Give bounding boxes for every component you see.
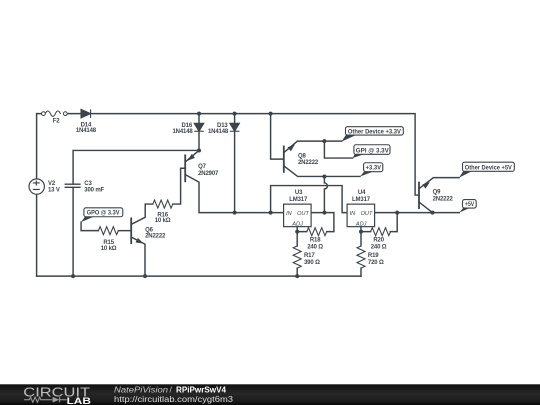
svg-text:U3: U3 xyxy=(295,190,303,196)
svg-text:R17: R17 xyxy=(304,253,315,259)
svg-text:ADJ: ADJ xyxy=(291,222,303,228)
svg-text:390 Ω: 390 Ω xyxy=(304,260,320,266)
svg-text:2N2907: 2N2907 xyxy=(198,171,219,177)
svg-text:GPI @ 3.3V: GPI @ 3.3V xyxy=(356,149,389,155)
svg-text:LM317: LM317 xyxy=(289,197,308,203)
svg-text:240 Ω: 240 Ω xyxy=(307,244,323,250)
svg-text:LAB: LAB xyxy=(67,395,92,405)
svg-text:Q9: Q9 xyxy=(433,189,442,195)
svg-text:10 kΩ: 10 kΩ xyxy=(101,246,117,252)
svg-text:GPO @ 3.3V: GPO @ 3.3V xyxy=(87,211,120,217)
svg-text:1N4148: 1N4148 xyxy=(172,129,193,135)
svg-text:Other Device +3.3V: Other Device +3.3V xyxy=(348,130,401,136)
svg-text:1N4148: 1N4148 xyxy=(76,128,97,134)
svg-text:RPiPwrSwV4: RPiPwrSwV4 xyxy=(176,384,226,394)
svg-text:OUT: OUT xyxy=(361,211,373,217)
svg-text:IN: IN xyxy=(286,211,293,217)
svg-text:D16: D16 xyxy=(182,123,193,129)
svg-text:Other Device +5V: Other Device +5V xyxy=(465,165,512,171)
svg-text:2N2222: 2N2222 xyxy=(433,197,454,203)
svg-text:2N2222: 2N2222 xyxy=(145,234,166,240)
svg-text:IN: IN xyxy=(350,211,357,217)
svg-text:240 Ω: 240 Ω xyxy=(371,244,387,250)
svg-text:1N4148: 1N4148 xyxy=(208,129,229,135)
svg-text:U4: U4 xyxy=(358,190,366,196)
svg-text:V2: V2 xyxy=(48,181,56,187)
svg-text:10 kΩ: 10 kΩ xyxy=(155,218,171,224)
svg-text:Q8: Q8 xyxy=(298,154,307,160)
svg-text:LM317: LM317 xyxy=(352,197,371,203)
svg-text:NatePiVision: NatePiVision xyxy=(114,384,168,394)
svg-text:720 Ω: 720 Ω xyxy=(368,260,384,266)
svg-text:D13: D13 xyxy=(217,123,228,129)
svg-text:+3.3V: +3.3V xyxy=(366,166,381,172)
svg-text:2N2222: 2N2222 xyxy=(298,160,319,166)
svg-text:R18: R18 xyxy=(310,238,321,244)
svg-text:300 mF: 300 mF xyxy=(84,188,104,194)
svg-text:http://circuitlab.com/cygt6m3: http://circuitlab.com/cygt6m3 xyxy=(114,394,233,404)
svg-text:R19: R19 xyxy=(368,253,379,259)
svg-text:OUT: OUT xyxy=(297,211,309,217)
svg-text:ADJ: ADJ xyxy=(355,222,367,228)
svg-text:+5V: +5V xyxy=(465,202,474,208)
svg-text:Q7: Q7 xyxy=(198,164,207,170)
svg-text:C3: C3 xyxy=(84,181,92,187)
svg-text:R20: R20 xyxy=(373,238,384,244)
svg-text:F2: F2 xyxy=(53,118,61,124)
svg-text:13 V: 13 V xyxy=(48,188,60,194)
